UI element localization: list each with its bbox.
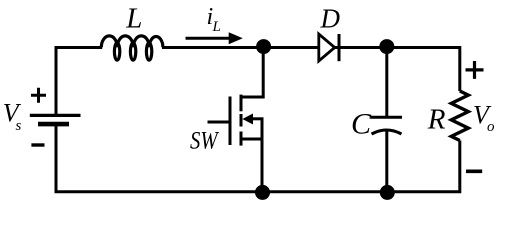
node dot top-left (256, 39, 271, 54)
svg-text:L: L (125, 3, 142, 35)
diode triangle (319, 34, 335, 61)
voltage source Vs (battery) (3, 88, 81, 145)
channel dash bottom (240, 132, 243, 146)
gate bar (229, 97, 232, 146)
node dot bottom-left (255, 185, 270, 200)
capacitor curved plate (372, 130, 402, 134)
svg-text:C: C (351, 107, 372, 140)
svg-text:R: R (427, 104, 446, 136)
output minus sign (466, 170, 482, 174)
svg-text:D: D (320, 4, 341, 34)
body arrow head (242, 114, 253, 125)
wire top right segment + right upper lead (335, 48, 460, 92)
svg-text:L: L (212, 19, 221, 35)
source lead (241, 138, 262, 141)
battery minus sign (31, 143, 44, 146)
capacitor top plate (371, 116, 402, 119)
current arrow iL (186, 32, 243, 44)
wire bottom rail and right lower lead (56, 126, 460, 192)
wire capacitor lower lead (385, 131, 388, 193)
resistor R (451, 91, 468, 141)
battery plus sign (31, 88, 46, 103)
diode cathode bar (338, 34, 341, 61)
output plus sign (466, 61, 484, 79)
battery long positive plate (30, 114, 81, 117)
inductor L (101, 36, 163, 60)
wire top middle segment (162, 46, 319, 49)
transistor SW (MOSFET) (208, 53, 264, 192)
svg-text:SW: SW (190, 128, 219, 155)
body arrow shaft (249, 117, 264, 120)
battery short negative plate (38, 122, 69, 127)
source vertical (261, 119, 264, 193)
gate lead (208, 121, 231, 124)
channel dash top (240, 95, 243, 112)
wire capacitor upper lead (385, 47, 388, 117)
svg-text:o: o (487, 119, 495, 135)
node dot top-right (379, 39, 394, 54)
svg-text:s: s (16, 118, 22, 134)
channel dash middle (240, 114, 243, 127)
wire left vertical + top-left segment (56, 48, 102, 115)
diode D (319, 34, 339, 61)
drain lead (241, 53, 263, 97)
capacitor C (371, 117, 402, 134)
node dot bottom-right (380, 185, 395, 200)
